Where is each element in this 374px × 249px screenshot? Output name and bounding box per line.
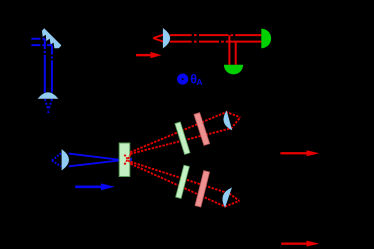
detector D1 (green half-disc flat side left) <box>261 29 271 49</box>
wire: red upper-path beam edge B <box>130 117 240 154</box>
wire: red upper-path beam edge A <box>130 112 240 152</box>
wire: blue beam lower horizontal into mirror <box>31 44 52 46</box>
node: rotation symbol (blue ring) <box>179 76 186 83</box>
wire: blue converging V below lens L1 <box>45 99 52 113</box>
lens L5 (lower path, tilted plano-convex) <box>220 187 231 207</box>
slab S1 (upper path, light green tilted) <box>175 122 190 155</box>
node: blue direction arrow below L3 <box>75 183 115 190</box>
mirror M1 (45-degree, sawtooth hatched back) <box>42 28 62 48</box>
node: red direction arrow below lens L2 <box>136 52 162 58</box>
detector D2 (green half-disc facing down) <box>224 65 243 75</box>
wire: blue beam right vertical down from mirror <box>51 45 53 93</box>
slab S2 (lower path, light green tilted) <box>176 165 190 198</box>
wire: blue beam lower from L3 converging to sample slab <box>69 159 132 166</box>
node: red arrowhead left of lens L2 <box>153 35 163 42</box>
node: red output arrow upper right <box>280 150 319 156</box>
wire: red lower-path beam edge B <box>131 164 240 207</box>
node: red output arrow lower right <box>281 241 319 247</box>
wire: blue beam upper from L3 converging to sample slab <box>69 154 132 162</box>
wire: red lower-path beam edge A <box>131 162 240 201</box>
wire: red branch vertical left to detector D2 <box>228 35 230 65</box>
wire: red beam lower horizontal from L2 to detector D1 <box>170 41 261 43</box>
lens L2 (plano-convex, flat left, red collimating lens) <box>163 29 169 48</box>
slab P2 (lower path, pink tilted) <box>195 171 210 207</box>
node: blue arrowhead left of lens L3 <box>52 153 61 166</box>
wire: blue beam left vertical down from mirror <box>44 39 46 93</box>
lens L4 (upper path, tilted plano-convex) <box>222 112 232 131</box>
wire: red steep X line at sample slab (up-right) <box>124 154 130 164</box>
lens L3 (plano-convex, flat left, bottom beam) <box>62 150 69 170</box>
wire: red steep X line at sample slab (down-right) <box>124 155 130 164</box>
wire: blue beam upper horizontal into mirror <box>31 38 44 40</box>
wire: red branch vertical right to detector D2 <box>235 42 237 65</box>
svg-text:A: A <box>196 77 202 87</box>
lens L1 (plano-convex, convex up, focusing blue beam) <box>39 93 58 99</box>
sample slab S0 (vertical light green) <box>119 143 130 177</box>
slab P1 (upper path, pink tilted) <box>194 113 210 146</box>
wire: red beam upper horizontal from L2 to detector D1 <box>170 34 261 36</box>
